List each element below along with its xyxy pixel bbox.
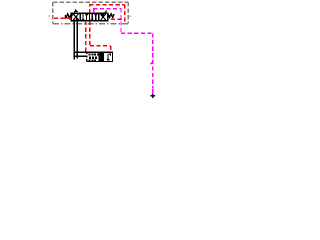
wire magenta feedback <box>93 8 152 93</box>
block right sub-symbol <box>107 54 111 61</box>
valve V1 right spring <box>108 14 114 18</box>
block solid section <box>99 52 104 61</box>
valve V1 cell arrows <box>73 14 105 21</box>
orange interruption point right <box>129 15 131 17</box>
magenta direction tick <box>150 62 152 64</box>
valve V1 body <box>71 13 108 20</box>
enclosure box (gray dashed) <box>53 2 128 24</box>
terminal plus mark <box>150 93 155 98</box>
block wall notches <box>86 54 87 59</box>
wire red solenoid A down <box>85 21 87 52</box>
pipe B <box>76 21 78 59</box>
valve V1 proportional arrow left <box>70 10 76 19</box>
cylinder block <box>75 52 113 61</box>
valve V1 proportional arrow right <box>102 11 107 17</box>
valve V1 left spring <box>65 14 71 18</box>
block checker pattern <box>88 53 98 61</box>
orange interruption point left <box>48 15 50 17</box>
wire red left (to valve) <box>54 17 71 19</box>
wire red top loop <box>89 4 125 23</box>
pipe A <box>73 21 75 60</box>
wire red solenoid B down/right <box>90 21 111 52</box>
